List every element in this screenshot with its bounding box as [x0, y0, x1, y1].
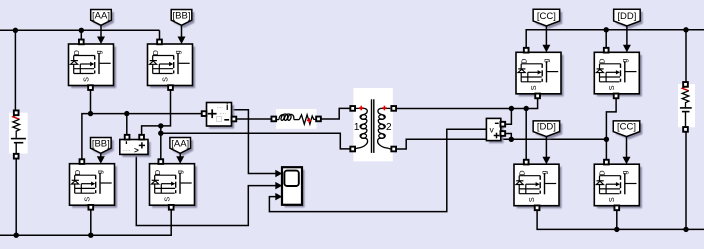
svg-text:S: S	[162, 197, 171, 202]
port: Q5 drain	[524, 48, 529, 53]
port: Q1 source	[88, 85, 93, 90]
svg-text:1: 1	[354, 122, 360, 133]
wire: Q1 drain leg	[80, 30, 82, 40]
wire: load bottom leg	[685, 131, 687, 229]
wire: Q7 drain leg	[525, 109, 527, 162]
gate wire arrow from [DD]	[545, 137, 547, 159]
port: T1 primary bottom	[350, 147, 355, 152]
node: right mid bus / V2 minus	[509, 106, 514, 111]
current measurement block I1	[209, 105, 234, 129]
port: Q8 source	[614, 205, 619, 210]
gate wire arrow from [BB]	[181, 25, 183, 38]
svg-text:[CC]: [CC]	[537, 11, 556, 22]
svg-text:D: D	[151, 50, 160, 55]
wire: current meter minus to RL branch	[236, 118, 272, 120]
svg-text:[CC]: [CC]	[617, 122, 636, 133]
port: Q2 drain	[157, 40, 162, 45]
svg-text:D: D	[73, 170, 82, 175]
svg-text:S: S	[160, 77, 169, 82]
right branch capacitor	[680, 107, 692, 109]
port: T1 primary top	[350, 106, 355, 111]
node: Q8 drain junction	[604, 137, 609, 142]
transistor Q5 (MOSFET block)	[519, 55, 564, 97]
from tag [BB]	[174, 12, 195, 28]
svg-text:[AA]: [AA]	[92, 10, 110, 21]
wire: V2 minus leg	[505, 109, 512, 125]
svg-text:S: S	[529, 85, 538, 90]
port: Q4 source	[169, 205, 174, 210]
voltage measurement block V1 (rotated)	[122, 142, 150, 157]
svg-text:[DD]: [DD]	[617, 11, 636, 22]
port: Q8 drain	[604, 160, 609, 165]
svg-text:v: v	[489, 124, 494, 134]
wire: V2 plus leg	[505, 134, 512, 140]
wire: transformer secondary bottom rail	[395, 139, 606, 149]
gate wire arrow from [CC]	[626, 137, 628, 159]
wire: V1 output to scope input 2	[136, 154, 276, 225]
svg-text:g: g	[620, 171, 629, 175]
right branch resistor	[682, 87, 689, 91]
left branch capacitor	[11, 138, 26, 140]
port: V2 plus	[500, 131, 505, 136]
wire: Q3 source leg	[90, 210, 92, 236]
transformer core	[371, 99, 373, 153]
transistor Q7 (MOSFET block)	[517, 167, 562, 209]
svg-text:D: D	[598, 58, 607, 63]
gate wire arrow from [CC]	[545, 26, 547, 46]
gate wire arrow from [DD]	[626, 26, 628, 46]
svg-text:g: g	[173, 50, 182, 54]
port: right branch top	[683, 82, 688, 87]
left branch resistor	[13, 115, 20, 119]
wire: Q8 source leg	[616, 208, 618, 229]
wire: RL branch to transformer primary top	[320, 108, 352, 119]
port: V2 minus	[500, 122, 505, 127]
node: V2 plus junction	[509, 137, 514, 142]
svg-text:g: g	[94, 50, 103, 54]
svg-text:D: D	[72, 50, 81, 55]
voltage measurement block V2	[489, 121, 503, 143]
transistor Q4 (MOSFET block)	[152, 166, 197, 208]
svg-text:g: g	[175, 170, 184, 174]
transformer primary winding 1	[355, 107, 365, 109]
scope block	[285, 170, 305, 208]
from tag [CC]	[536, 12, 563, 29]
node: right top bus / Q6 drain	[604, 27, 609, 32]
wire: left source bottom leg	[15, 158, 17, 235]
svg-text:g: g	[95, 170, 104, 174]
svg-text:[DD]: [DD]	[537, 122, 556, 133]
port: Q5 source	[535, 94, 540, 99]
port: V1 minus	[125, 135, 130, 140]
wire: left top bus	[0, 29, 160, 31]
port: Q3 source	[88, 205, 93, 210]
transistor Q6 (MOSFET block)	[597, 55, 642, 97]
from tag [DD]	[536, 124, 563, 140]
svg-text:S: S	[607, 197, 616, 202]
right load branch (R-C)	[678, 84, 695, 127]
node: left top bus / Q1 drain junction	[79, 28, 84, 33]
wire: Q6 drain leg	[605, 30, 607, 50]
wire: left bottom bus	[0, 210, 171, 236]
wire: junction drop	[160, 126, 162, 162]
wire: current measurement output to scope input 1	[232, 110, 277, 174]
port: RL left	[271, 117, 276, 122]
svg-text:g: g	[542, 59, 551, 63]
wire: bridge A lower rail to transformer	[161, 133, 352, 149]
node: right mid bus / Q7 drain	[524, 106, 529, 111]
gate wire arrow from [AA]	[100, 25, 102, 38]
svg-text:D: D	[598, 170, 607, 175]
wire: load top leg	[685, 30, 687, 83]
transistor Q8 (MOSFET block)	[597, 167, 642, 209]
gate wire arrow from [AA]	[179, 153, 181, 157]
port: V1 plus	[139, 135, 144, 140]
port: RL right	[316, 117, 321, 122]
node: mid bus / Q1 source	[88, 111, 93, 116]
port: left branch bottom	[14, 154, 19, 159]
svg-text:S: S	[81, 77, 90, 82]
svg-text:[BB]: [BB]	[92, 138, 110, 149]
port: Q4 drain	[158, 159, 163, 164]
resistor R1	[299, 115, 316, 124]
port: I1 minus	[232, 117, 237, 122]
port: right branch bottom	[683, 127, 688, 132]
node: right bottom bus / load bottom	[683, 227, 688, 232]
wire: right top bus	[526, 30, 704, 50]
svg-text:>: >	[134, 146, 139, 155]
node: Q2 source / V1 minus junction	[158, 123, 163, 128]
port: Q6 drain	[604, 48, 609, 53]
port: Q2 source	[168, 85, 173, 90]
port: Q3 drain	[80, 159, 85, 164]
transistor Q1 (MOSFET block)	[71, 47, 116, 89]
port: left branch top	[14, 110, 19, 115]
gate wire arrow from [BB]	[100, 153, 102, 157]
wire: Q1 source to mid bus	[90, 88, 92, 114]
wire: right bottom bus	[537, 208, 704, 229]
port: Q1 drain	[79, 40, 84, 45]
inductor L1	[276, 119, 279, 121]
from tag [CC]	[616, 124, 643, 140]
wire: Q2 source jog	[142, 88, 171, 136]
port: T1 secondary top	[391, 106, 396, 111]
svg-text:[BB]: [BB]	[173, 10, 191, 21]
node: mid bus / V1 plus	[124, 111, 129, 116]
from tag [AA]	[93, 12, 114, 28]
wire: V1 plus leg	[126, 114, 128, 136]
svg-text:S: S	[607, 85, 616, 90]
svg-text:i: i	[226, 102, 228, 112]
node: right top bus / load top	[683, 27, 688, 32]
svg-text:S: S	[527, 197, 536, 202]
svg-text:2: 2	[386, 122, 392, 133]
linear transformer T1	[354, 88, 393, 161]
node: right bottom bus / Q8 source	[614, 227, 619, 232]
wire: left source top leg	[14, 30, 16, 110]
wire: V2 output to scope input 3	[269, 129, 486, 211]
transistor Q3 (MOSFET block)	[72, 166, 117, 208]
port: Q7 drain	[524, 160, 529, 165]
node: bottom bus / Q3 source	[88, 233, 93, 238]
wire: right mid bus from transformer secondary top	[395, 99, 537, 109]
port: Q6 source	[614, 94, 619, 99]
port: I1 plus	[202, 111, 207, 116]
from tag [AA]	[173, 140, 194, 156]
left source branch (R-C)	[9, 113, 28, 154]
svg-text:D: D	[153, 170, 162, 175]
svg-text:S: S	[82, 197, 91, 202]
series RL branch L1-R1	[276, 109, 317, 129]
node: bottom bus / source	[14, 233, 19, 238]
wire: Q6 source to Q8 drain	[606, 99, 616, 162]
port: Q7 source	[535, 205, 540, 210]
svg-text:D: D	[519, 58, 528, 63]
transformer secondary winding 2	[381, 107, 391, 109]
port: T1 secondary bottom	[391, 147, 396, 152]
from tag [BB]	[93, 140, 114, 156]
node: bridge A leg midpoint	[158, 131, 163, 136]
node: left top bus / source junction	[13, 28, 18, 33]
transistor Q2 (MOSFET block)	[150, 47, 195, 89]
from tag [DD]	[616, 12, 643, 29]
svg-text:[AA]: [AA]	[171, 138, 189, 149]
svg-text:g: g	[540, 171, 549, 175]
wire: left mid bus	[82, 114, 202, 162]
svg-text:g: g	[620, 59, 629, 63]
svg-text:D: D	[517, 170, 526, 175]
